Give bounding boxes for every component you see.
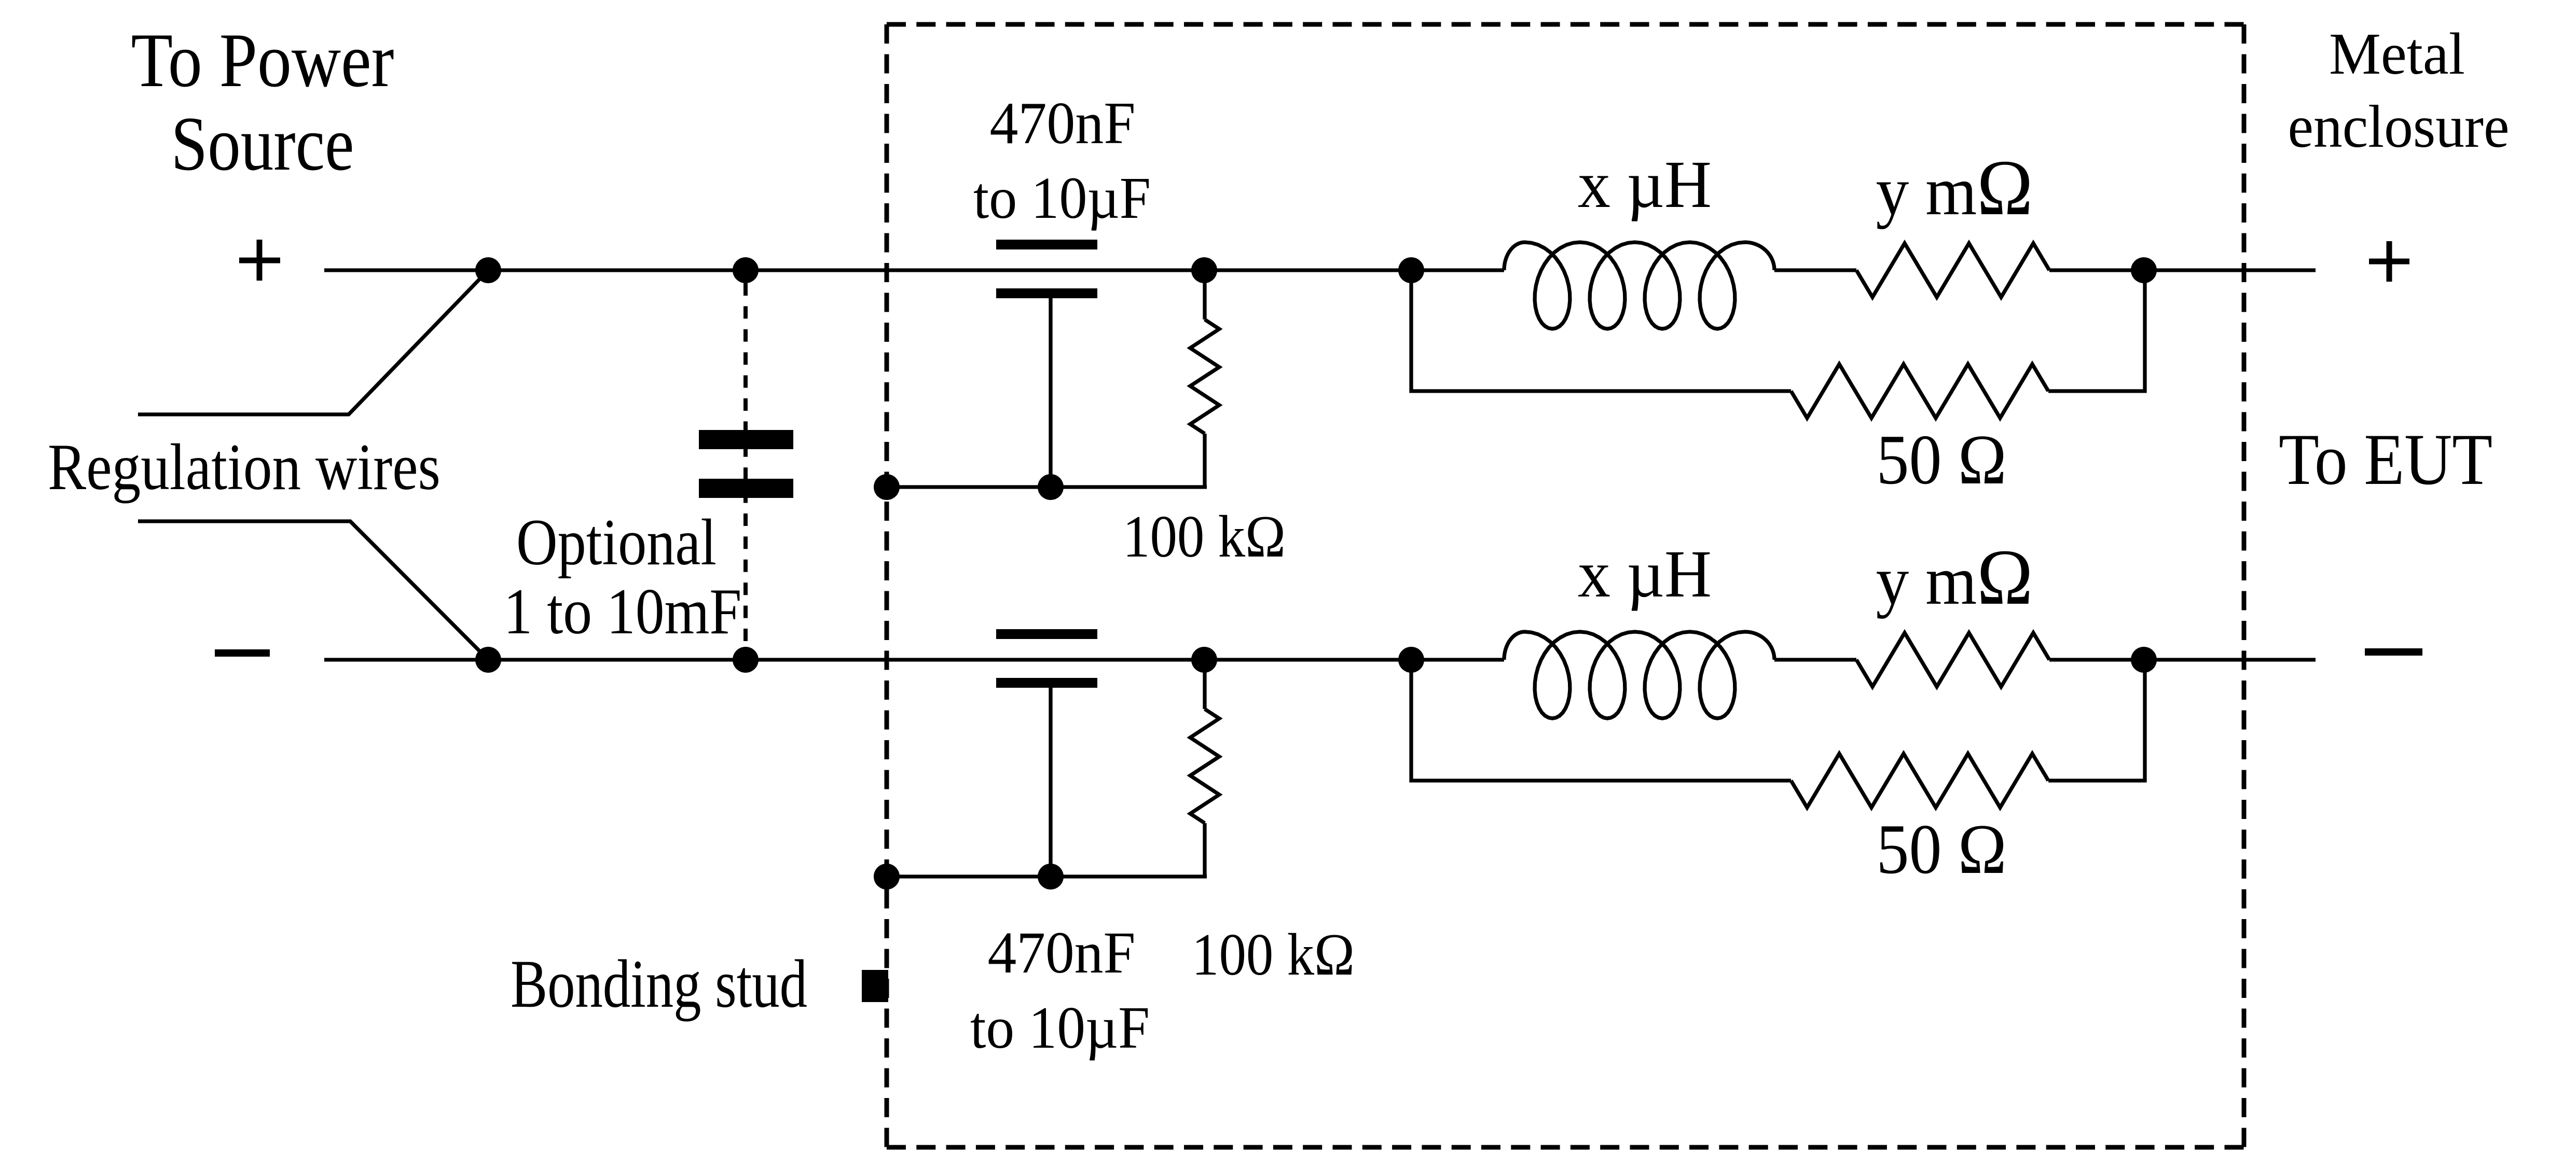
node: rail/capacitor junction (L2) bbox=[1038, 864, 1064, 890]
svg-text:50 Ω: 50 Ω bbox=[1876, 421, 2006, 499]
bonding stud square bbox=[862, 970, 888, 1002]
resistor 100 kOhm (L2) bbox=[1190, 660, 1219, 877]
svg-text:Source: Source bbox=[171, 101, 354, 187]
svg-text:enclosure: enclosure bbox=[2288, 93, 2510, 160]
resistor y mOhm (L1) bbox=[1856, 243, 2049, 297]
svg-text:To EUT: To EUT bbox=[2279, 419, 2492, 500]
node: rail at box edge (L2) bbox=[874, 864, 900, 890]
svg-text:y mΩ: y mΩ bbox=[1876, 534, 2033, 621]
wire: negative line main rail bbox=[324, 658, 2316, 661]
svg-text:Metal: Metal bbox=[2329, 21, 2465, 87]
node: inductor junction (L2) bbox=[1398, 647, 1424, 673]
wire: dashed link for optional capacitor bbox=[743, 283, 748, 647]
svg-text:100 kΩ: 100 kΩ bbox=[1192, 921, 1355, 988]
svg-text:to 10µF: to 10µF bbox=[973, 165, 1151, 231]
inductor x uH (L1) bbox=[1504, 242, 1774, 329]
plus terminal (power source, +) bbox=[239, 240, 280, 281]
node: optional-capacitor tap (L1) bbox=[733, 257, 759, 283]
svg-text:Bonding stud: Bonding stud bbox=[511, 946, 807, 1021]
capacitor Optional 1-10mF plates bbox=[699, 430, 793, 498]
svg-text:470nF: 470nF bbox=[990, 91, 1136, 157]
wire: regulation wire (bottom) bbox=[138, 521, 488, 660]
svg-text:to 10µF: to 10µF bbox=[970, 995, 1150, 1061]
node: 100k/cap junction (L1) bbox=[1191, 257, 1217, 283]
capacitor stem wire (L1) bbox=[1049, 298, 1052, 487]
svg-text:Optional: Optional bbox=[516, 506, 717, 579]
svg-text:y mΩ: y mΩ bbox=[1876, 144, 2033, 232]
wire: regulation wire (top) bbox=[138, 270, 488, 414]
minus terminal (power source, -) bbox=[215, 649, 270, 657]
capacitor 470nF-10uF (L1) plates bbox=[996, 240, 1097, 298]
plus terminal (EUT, +) bbox=[2369, 241, 2409, 282]
wire: 50-ohm branch (L1) bbox=[1411, 270, 2145, 391]
node: output junction (L2) bbox=[2131, 647, 2157, 673]
wire: enclosure rail (L1) bbox=[887, 485, 1207, 489]
node: output junction (L1) bbox=[2131, 257, 2157, 283]
node: rail at box edge (L1) bbox=[874, 474, 900, 500]
svg-text:Regulation wires: Regulation wires bbox=[48, 430, 440, 503]
minus terminal (EUT, -) bbox=[2365, 648, 2422, 656]
capacitor stem wire (L2) bbox=[1049, 688, 1052, 877]
node: input junction (L2) bbox=[475, 647, 501, 673]
wire: positive line main rail bbox=[324, 268, 2316, 272]
wire: 50-ohm branch (L2) bbox=[1411, 660, 2145, 781]
node: optional-capacitor tap (L2) bbox=[733, 647, 759, 673]
node: rail/capacitor junction (L1) bbox=[1038, 474, 1064, 500]
resistor 50 Ohm (L1) bbox=[1791, 364, 2048, 418]
svg-text:50 Ω: 50 Ω bbox=[1876, 810, 2006, 888]
resistor y mOhm (L2) bbox=[1856, 633, 2049, 687]
resistor 100 kOhm (L1) bbox=[1190, 270, 1219, 487]
capacitor 470nF-10uF (L2) plates bbox=[996, 629, 1097, 688]
svg-text:x µH: x µH bbox=[1578, 536, 1712, 611]
node: 100k/cap junction (L2) bbox=[1191, 647, 1217, 673]
svg-text:To Power: To Power bbox=[131, 18, 394, 103]
svg-text:100 kΩ: 100 kΩ bbox=[1123, 503, 1286, 569]
inductor x uH (L2) bbox=[1504, 632, 1774, 718]
wire: enclosure rail (L2) bbox=[887, 874, 1207, 878]
node: inductor junction (L1) bbox=[1398, 257, 1424, 283]
node: input junction (L1) bbox=[475, 257, 501, 283]
svg-text:1 to 10mF: 1 to 10mF bbox=[504, 575, 742, 648]
metal enclosure dashed box bbox=[887, 24, 2244, 1147]
svg-text:470nF: 470nF bbox=[988, 920, 1136, 985]
resistor 50 Ohm (L2) bbox=[1791, 754, 2048, 808]
svg-text:x µH: x µH bbox=[1578, 147, 1712, 221]
